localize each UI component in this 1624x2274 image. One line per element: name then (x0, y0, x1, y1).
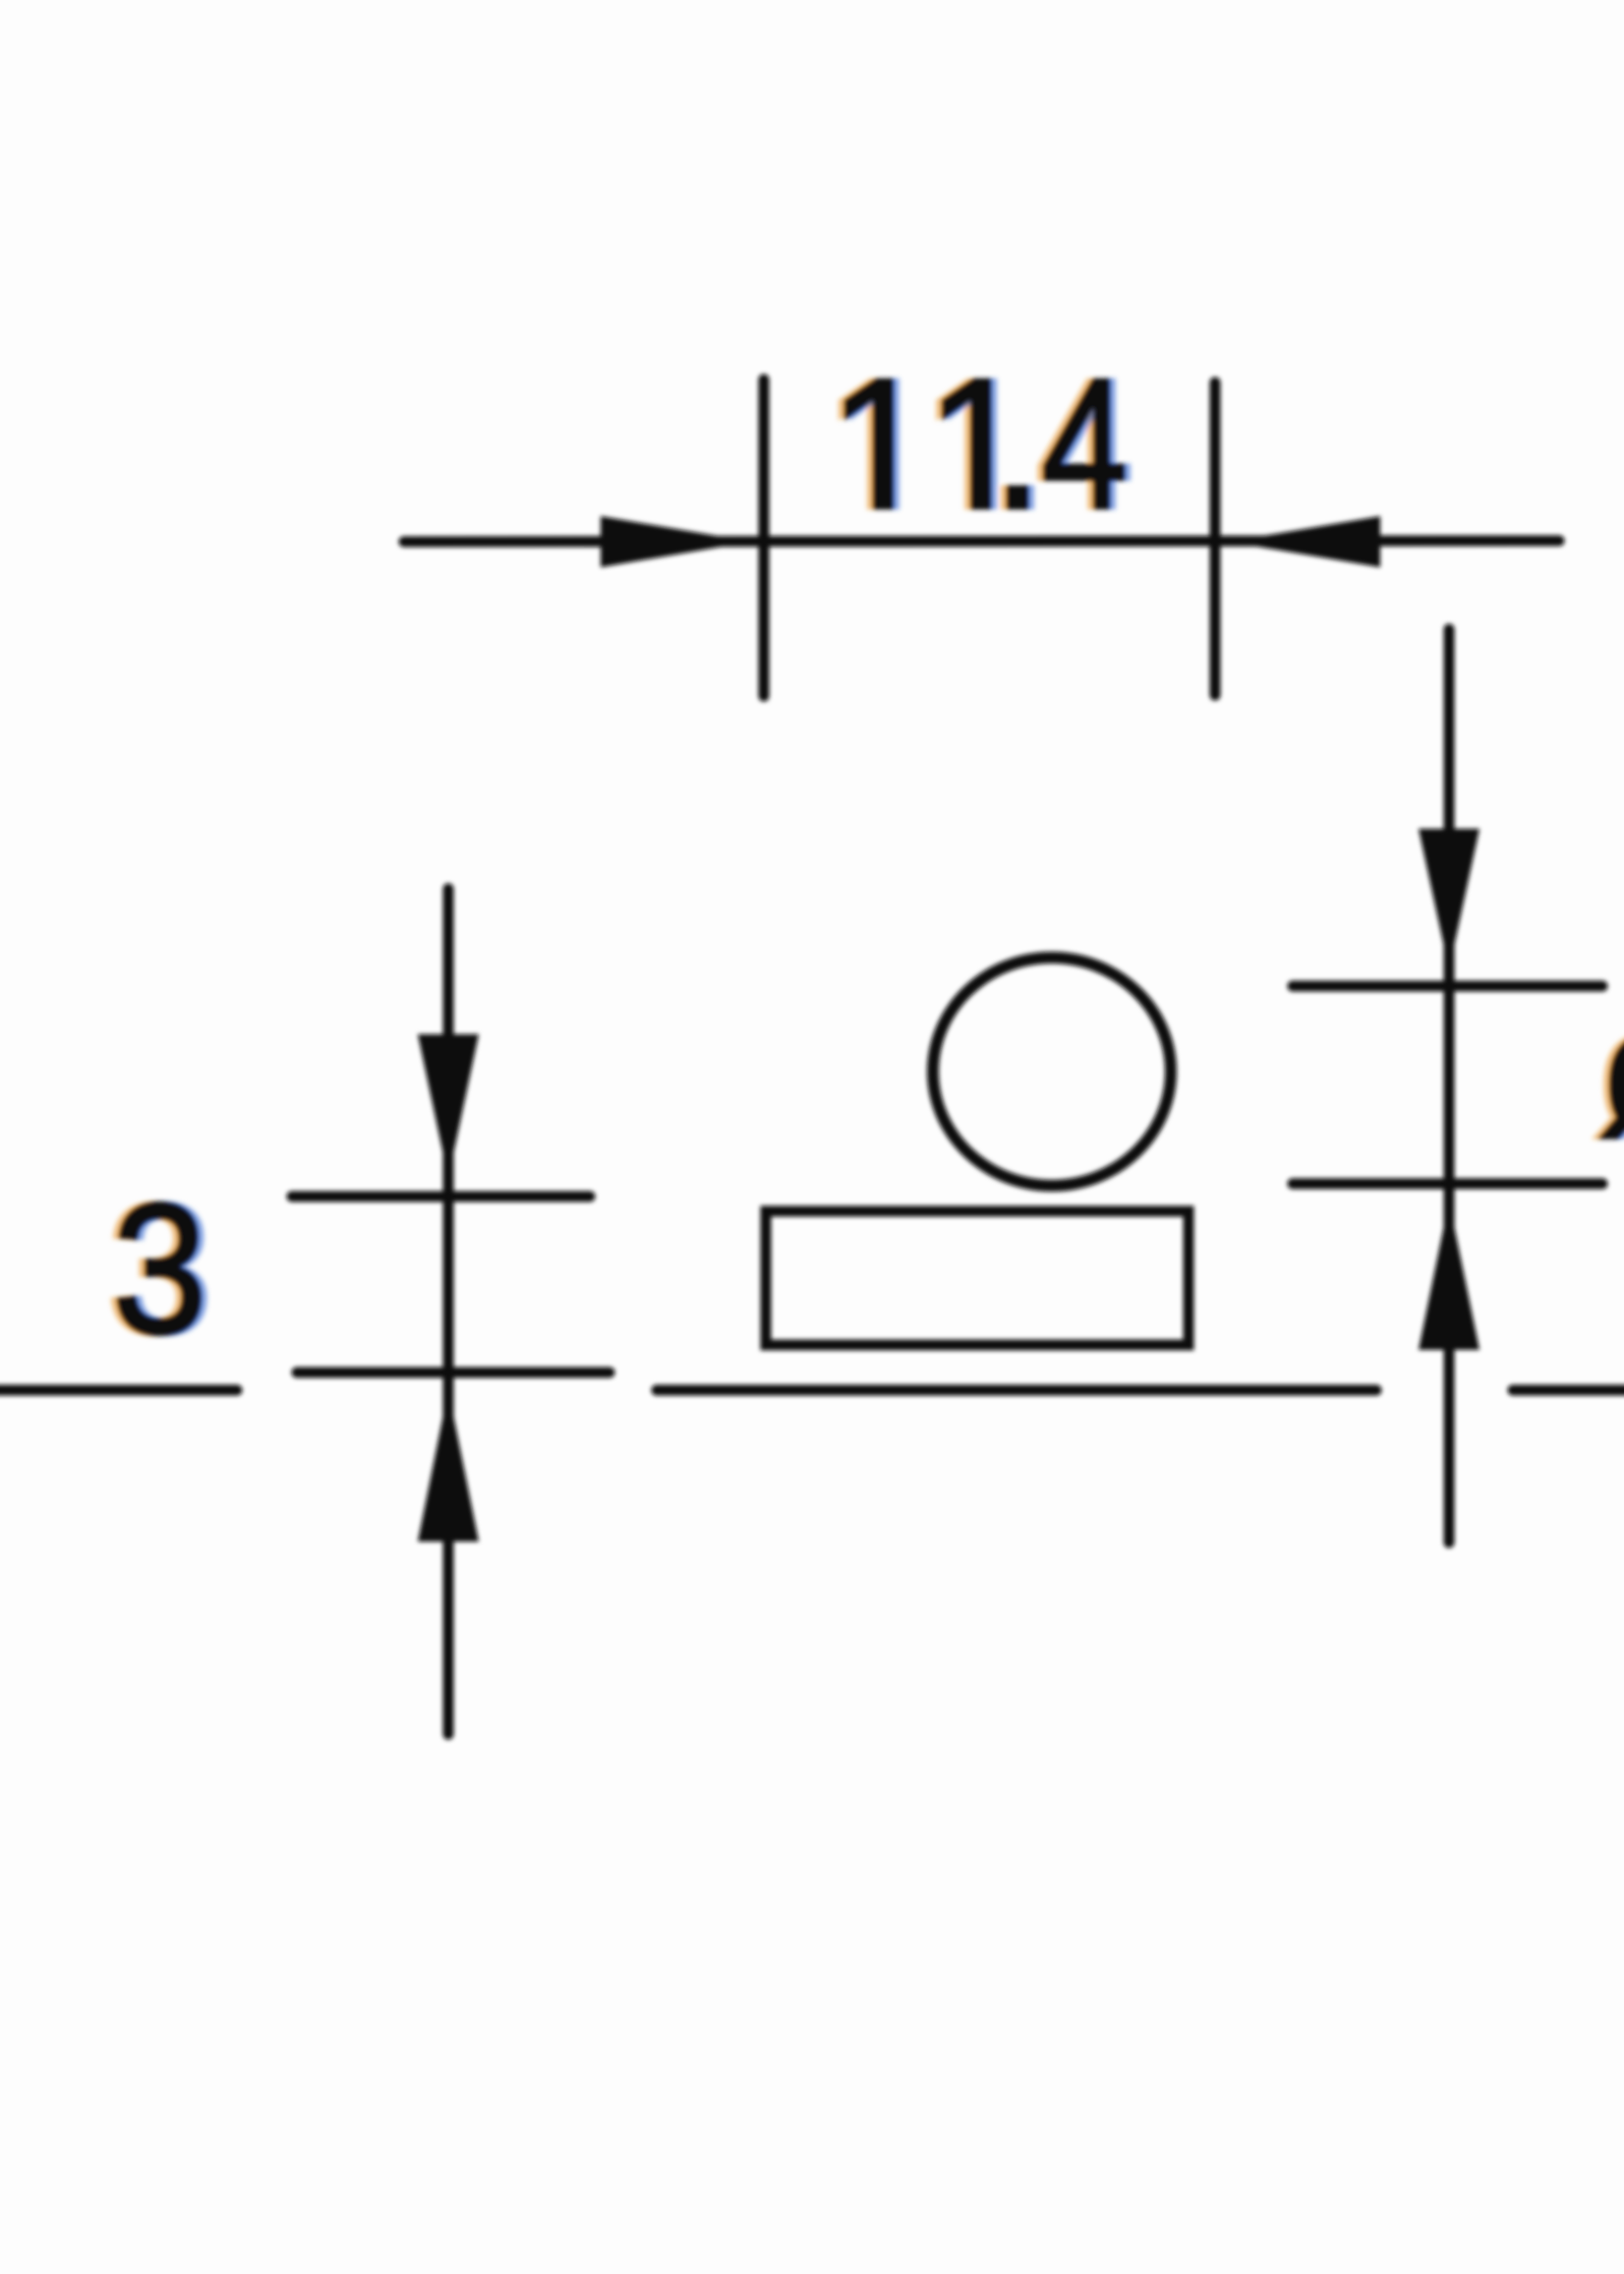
right extension line of width dimension (1210, 382, 1221, 695)
arrowhead pointing left at right extension line (1229, 516, 1380, 567)
diameter dimension: lower extension tick (1293, 1179, 1602, 1190)
diameter dimension: up arrowhead (1419, 1201, 1479, 1350)
solder pad rectangle under the body (766, 1211, 1189, 1345)
height dimension 3: upper extension tick (292, 1192, 590, 1202)
arrowhead pointing right at left extension line (601, 516, 751, 567)
height dimension 3: down arrowhead (418, 1034, 479, 1178)
diameter dimension: vertical leader line (1444, 629, 1455, 1543)
board baseline left segment (0, 1385, 237, 1396)
dimension text 3 (113, 1203, 205, 1334)
board baseline middle segment (657, 1385, 1376, 1396)
height dimension 3: up arrowhead (418, 1390, 479, 1542)
diameter dimension: upper extension tick (1293, 981, 1602, 992)
height dimension 3: vertical leader line (443, 889, 454, 1734)
board baseline right segment (1513, 1385, 1624, 1396)
component body circle (cross-section of cylindrical part) (933, 958, 1171, 1186)
width dimension line with outside arrow leaders (11.4) (404, 541, 1559, 542)
left extension line of width dimension (759, 379, 770, 696)
height dimension 3: lower extension tick (297, 1368, 609, 1378)
dimension text 11.4 (841, 380, 1129, 507)
diameter dimension: down arrowhead (1419, 829, 1479, 969)
partial diameter symbol text at right edge (1596, 1033, 1624, 1137)
